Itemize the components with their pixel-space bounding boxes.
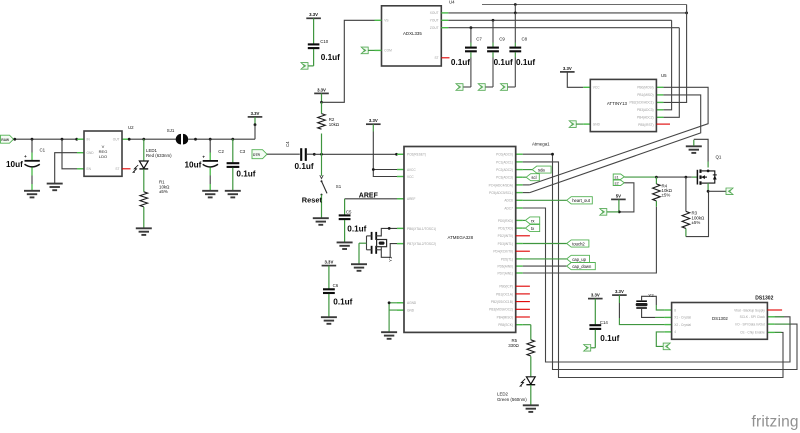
svg-text:3.3V: 3.3V bbox=[324, 260, 333, 265]
wire ADC7 to DS1302 SCLK bbox=[523, 208, 790, 362]
node R2 Reset junction bbox=[320, 153, 323, 156]
wire crystal top to DS1302 pin1 bbox=[642, 296, 657, 305]
svg-text:10uf: 10uf bbox=[185, 160, 202, 169]
svg-text:AGND: AGND bbox=[407, 301, 417, 305]
red stub ATTINY PB5 bbox=[656, 123, 670, 125]
resistor R3 bbox=[682, 177, 708, 237]
svg-text:+: + bbox=[24, 155, 27, 160]
solder jumper SJ1 bbox=[167, 128, 189, 145]
label cap_down bbox=[567, 263, 596, 270]
svg-text:PB3(ADC3): PB3(ADC3) bbox=[637, 108, 654, 112]
wire redundant top loop bbox=[482, 4, 687, 6]
svg-text:XOUT: XOUT bbox=[430, 11, 439, 15]
svg-text:±5%: ±5% bbox=[662, 193, 671, 198]
wire PC1 to DS1302 CE bbox=[523, 162, 783, 378]
connector output heart bbox=[726, 188, 733, 195]
wire PD3 to touch2 bbox=[523, 243, 567, 245]
svg-text:VCC: VCC bbox=[593, 86, 600, 90]
red stub PB1 bbox=[516, 293, 530, 295]
svg-text:PB6(XTAL1/TOSC1): PB6(XTAL1/TOSC1) bbox=[407, 227, 436, 231]
capacitor C5 bbox=[339, 199, 367, 242]
svg-text:3.3V: 3.3V bbox=[369, 118, 378, 123]
svg-text:C6: C6 bbox=[333, 283, 339, 288]
node 3.3V R2 ADXL junction bbox=[320, 101, 323, 104]
node AGND junction bbox=[388, 301, 391, 304]
svg-text:ADXL335: ADXL335 bbox=[403, 31, 422, 36]
node R4 top bbox=[655, 176, 658, 179]
wire s1 to gate node row bbox=[624, 176, 656, 178]
power 3.3V above ATTINY bbox=[560, 66, 575, 72]
LED LED1 Red bbox=[133, 139, 172, 192]
svg-text:VS: VS bbox=[384, 19, 388, 23]
node C3 junction bbox=[231, 138, 234, 141]
svg-text:scl: scl bbox=[531, 175, 536, 180]
svg-text:DTR: DTR bbox=[253, 153, 261, 157]
power 3.3V DS1302 bbox=[612, 289, 627, 303]
LED LED2 Green bbox=[497, 377, 535, 405]
svg-text:AREF: AREF bbox=[359, 192, 379, 199]
svg-text:PB2(SCK/ADC1): PB2(SCK/ADC1) bbox=[630, 101, 654, 105]
capacitor C9 bbox=[485, 20, 513, 87]
svg-text:EN: EN bbox=[87, 167, 92, 171]
node SJ1 wire end bbox=[194, 138, 197, 141]
svg-text:3.3V: 3.3V bbox=[591, 292, 600, 297]
svg-text:PB0(ICP): PB0(ICP) bbox=[499, 285, 512, 289]
svg-text:ADC7: ADC7 bbox=[504, 206, 513, 210]
ground below LED2 bbox=[523, 405, 539, 412]
svg-text:10uf: 10uf bbox=[6, 160, 23, 169]
svg-text:fritzing: fritzing bbox=[752, 413, 799, 430]
capacitor C1 bbox=[6, 139, 46, 190]
svg-text:10kΩ: 10kΩ bbox=[329, 122, 340, 127]
ground below ATmega bbox=[381, 332, 397, 339]
svg-text:ST: ST bbox=[435, 56, 439, 60]
svg-text:Green (560nm): Green (560nm) bbox=[497, 397, 527, 402]
svg-text:0.1uf: 0.1uf bbox=[333, 297, 352, 306]
svg-text:cap_down: cap_down bbox=[572, 264, 592, 269]
svg-text:PC2(ADC2): PC2(ADC2) bbox=[496, 168, 513, 172]
connector gnd DS1302 bbox=[663, 343, 670, 350]
node OUT pin dot bbox=[128, 138, 131, 141]
svg-text:PB1(OC1A): PB1(OC1A) bbox=[496, 292, 513, 296]
label s1 bbox=[613, 174, 624, 180]
svg-text:PB5(/RST): PB5(/RST) bbox=[638, 123, 653, 127]
svg-text:COM: COM bbox=[384, 49, 392, 53]
node PC6 pin dot bbox=[395, 153, 398, 156]
red stub PB0 bbox=[516, 285, 530, 287]
svg-text:GND: GND bbox=[407, 309, 415, 313]
node 5V junction bbox=[618, 211, 621, 214]
wire ATTINY PB0 MOSI to diagonal bbox=[530, 87, 708, 185]
svg-text:C5: C5 bbox=[346, 209, 352, 214]
svg-text:LDO: LDO bbox=[99, 154, 107, 159]
svg-text:0.1uf: 0.1uf bbox=[451, 58, 470, 67]
node XOUT C8 junction bbox=[514, 12, 517, 15]
resistor R4 bbox=[653, 177, 673, 207]
label tx bbox=[525, 225, 539, 232]
svg-text:C1: C1 bbox=[40, 147, 46, 152]
svg-text:ST: ST bbox=[115, 167, 119, 171]
svg-text:SCLK - SPI Clock: SCLK - SPI Clock bbox=[740, 315, 766, 319]
svg-text:0.1uf: 0.1uf bbox=[494, 58, 513, 67]
red stub PD2 bbox=[516, 235, 530, 237]
resistor R2 bbox=[318, 102, 340, 154]
crystal Y2 bbox=[636, 293, 655, 308]
crystal Y1 bbox=[376, 236, 403, 262]
node YOUT C9 junction bbox=[492, 19, 495, 22]
ground below C3 bbox=[225, 191, 241, 198]
svg-text:YOUT: YOUT bbox=[430, 19, 439, 23]
wire 3.3V to AVCC and VCC bbox=[373, 132, 404, 177]
label rx bbox=[525, 217, 539, 224]
node 3.3V wire end bbox=[254, 123, 257, 126]
ground below C6 bbox=[321, 317, 337, 324]
wire junction to ADXL VS bbox=[322, 20, 375, 102]
wire XOUT bus bbox=[448, 12, 686, 14]
svg-text:PB7(XTAL2/TOSC2): PB7(XTAL2/TOSC2) bbox=[407, 242, 436, 246]
capacitor C3 bbox=[227, 139, 256, 190]
svg-text:PB3(MOSI/OC2): PB3(MOSI/OC2) bbox=[489, 308, 513, 312]
wire gnd arrow to 5V node bbox=[607, 211, 619, 213]
svg-text:PB1(MISO): PB1(MISO) bbox=[637, 93, 653, 97]
wire PC2 to sda bbox=[523, 169, 532, 171]
svg-text:3.3V: 3.3V bbox=[309, 12, 318, 17]
connector gnd C14 bbox=[584, 345, 591, 352]
ground below R1 bbox=[136, 228, 152, 235]
node IN pin dot bbox=[75, 138, 78, 141]
node R3 top bbox=[685, 176, 688, 179]
svg-text:ATTINY13: ATTINY13 bbox=[607, 101, 628, 106]
wire C4 to ATmega PC6 bbox=[314, 153, 404, 155]
red stub PB4 bbox=[516, 316, 530, 318]
red stub regulator ST pin bbox=[122, 168, 131, 170]
wire PD6 to cap_down bbox=[523, 265, 567, 267]
svg-text:C14: C14 bbox=[600, 320, 609, 325]
wire regulator GND to ground bbox=[55, 153, 77, 184]
ground below C2 bbox=[202, 191, 218, 198]
wire PD5 to cap_up bbox=[523, 258, 567, 260]
node top loop C8 bbox=[514, 3, 517, 6]
svg-text:CE - Chip Enable: CE - Chip Enable bbox=[740, 331, 765, 335]
wire ground to Q1 drain bbox=[694, 139, 708, 167]
svg-text:8: 8 bbox=[674, 308, 676, 312]
svg-text:PB4(ADC2): PB4(ADC2) bbox=[637, 116, 654, 120]
connector gnd ATTINY bbox=[569, 121, 576, 128]
svg-text:Y1: Y1 bbox=[388, 256, 393, 262]
node ZOUT C7 junction bbox=[470, 26, 473, 29]
switch S1 Reset bbox=[302, 154, 342, 218]
svg-text:5V: 5V bbox=[616, 193, 621, 198]
svg-text:±5%: ±5% bbox=[692, 220, 701, 225]
wire PC4 sda diagonal start bbox=[523, 184, 530, 186]
svg-text:heart_out: heart_out bbox=[572, 198, 591, 203]
ground below C5 bbox=[337, 242, 353, 249]
svg-text:C10: C10 bbox=[320, 39, 329, 44]
label scl bbox=[526, 174, 539, 181]
svg-text:I/O - SPI Data In/Out: I/O - SPI Data In/Out bbox=[735, 322, 765, 326]
svg-text:C7: C7 bbox=[476, 37, 482, 42]
connector gnd stub C10 bbox=[301, 63, 308, 70]
svg-text:PB4(MISO): PB4(MISO) bbox=[497, 315, 513, 319]
svg-text:GND: GND bbox=[593, 122, 601, 126]
power 3.3V above R2 bbox=[314, 87, 329, 102]
svg-text:RAW: RAW bbox=[1, 138, 10, 142]
svg-text:ZOUT: ZOUT bbox=[430, 26, 439, 30]
red stub ADXL ST pin bbox=[441, 57, 449, 59]
svg-text:PC1(ADC1): PC1(ADC1) bbox=[496, 160, 513, 164]
capacitor C8 bbox=[508, 13, 536, 87]
svg-text:s2: s2 bbox=[615, 181, 619, 186]
wire PD0 to rx bbox=[523, 219, 526, 221]
node C1 junction bbox=[31, 138, 34, 141]
wire ADXL COM stub bbox=[368, 49, 374, 51]
ground crystal bbox=[351, 264, 367, 271]
power 3.3V above C10 bbox=[306, 12, 321, 18]
ground near Q1 bbox=[686, 146, 702, 153]
svg-text:Y2: Y2 bbox=[648, 293, 654, 298]
wire AREF bbox=[345, 192, 404, 199]
svg-text:OUT: OUT bbox=[113, 138, 120, 142]
svg-text:S1: S1 bbox=[336, 184, 342, 189]
svg-text:VCC: VCC bbox=[407, 175, 414, 179]
svg-text:C9: C9 bbox=[499, 37, 505, 42]
wire PC0 to DS1302 IO bbox=[523, 154, 797, 369]
svg-text:PD7(AIN1): PD7(AIN1) bbox=[497, 271, 512, 275]
capacitor C7 bbox=[451, 28, 482, 87]
label sda bbox=[532, 166, 551, 173]
svg-text:PD2(INT0): PD2(INT0) bbox=[498, 234, 513, 238]
label heart_out bbox=[567, 197, 593, 204]
svg-text:0.1uf: 0.1uf bbox=[600, 334, 619, 343]
svg-text:+: + bbox=[202, 155, 205, 160]
connector gnd ADXL COM bbox=[361, 47, 368, 54]
wire regulator OUT to SJ1 bbox=[129, 138, 176, 140]
wire RAW rail to regulator IN bbox=[14, 138, 78, 140]
crystal Y1 cluster load caps bbox=[359, 227, 404, 264]
power 3.3V AVCC bbox=[366, 118, 381, 132]
accelerometer U4 ADXL335 bbox=[375, 0, 456, 66]
voltage regulator U2 bbox=[77, 125, 134, 176]
connector RAW bbox=[1, 135, 14, 143]
node EN branch junction bbox=[61, 138, 64, 141]
connector DTR bbox=[252, 150, 267, 159]
wire top loop drop to XOUT bbox=[514, 5, 516, 13]
connector gnd C8 bbox=[501, 84, 508, 91]
svg-text:PD1(TXD): PD1(TXD) bbox=[498, 227, 513, 231]
svg-text:0.1uf: 0.1uf bbox=[236, 170, 255, 179]
svg-text:PD4(XCK/T0): PD4(XCK/T0) bbox=[493, 250, 512, 254]
svg-text:U4: U4 bbox=[449, 0, 455, 4]
svg-text:U5: U5 bbox=[661, 73, 667, 78]
red stub PD4 bbox=[516, 250, 530, 252]
svg-text:C2: C2 bbox=[218, 149, 224, 154]
wire source to output connector bbox=[708, 190, 726, 192]
svg-text:±5%: ±5% bbox=[159, 189, 168, 194]
wire DS1302 GND to connector bbox=[656, 332, 664, 347]
svg-text:0.1uf: 0.1uf bbox=[516, 58, 535, 67]
svg-text:X2 - Crystal: X2 - Crystal bbox=[674, 323, 691, 327]
svg-text:s1: s1 bbox=[615, 175, 619, 180]
svg-text:PD3(INT1): PD3(INT1) bbox=[498, 242, 513, 246]
power 3.3V above C3 rail bbox=[248, 111, 263, 125]
label touch2 bbox=[567, 240, 589, 247]
svg-text:SJ1: SJ1 bbox=[167, 128, 175, 133]
svg-text:Q1: Q1 bbox=[716, 155, 722, 160]
svg-text:Atmega1: Atmega1 bbox=[532, 142, 550, 147]
wire ATTINY PB1 MISO to diagonal bbox=[530, 95, 701, 193]
capacitor C6 bbox=[323, 266, 353, 317]
svg-text:3.3V: 3.3V bbox=[317, 87, 326, 92]
svg-text:U2: U2 bbox=[128, 125, 134, 130]
wire SJ1 to C2 C3 rail bbox=[188, 138, 255, 140]
node Q1 source bbox=[707, 190, 710, 193]
wire 3.3V to DS1302 X2 bbox=[618, 303, 620, 318]
svg-text:GND: GND bbox=[87, 151, 95, 155]
svg-text:330Ω: 330Ω bbox=[508, 343, 519, 348]
svg-text:Reset: Reset bbox=[302, 195, 323, 204]
label cap_up bbox=[567, 255, 590, 262]
RTC U6 DS1302 bbox=[665, 296, 775, 340]
svg-text:AREF: AREF bbox=[407, 197, 416, 201]
wire vertical bus to ATTINY PB3 bbox=[663, 20, 671, 110]
svg-text:0.1uf: 0.1uf bbox=[321, 53, 340, 62]
wire crystal bottom to X1 bbox=[642, 308, 655, 317]
svg-text:Red (633nm): Red (633nm) bbox=[146, 153, 172, 158]
svg-text:C3: C3 bbox=[240, 149, 246, 154]
svg-text:C8: C8 bbox=[522, 37, 528, 42]
capacitor C2 bbox=[185, 139, 225, 190]
wire ADC6 to heart_out bbox=[523, 199, 567, 201]
microcontroller U3 ATMEGA328 bbox=[397, 142, 550, 333]
svg-text:PB2(SS/OC1B): PB2(SS/OC1B) bbox=[491, 300, 513, 304]
svg-text:PC3(ADC3): PC3(ADC3) bbox=[496, 176, 513, 180]
svg-text:PC4(ADC4/SDA): PC4(ADC4/SDA) bbox=[489, 183, 513, 187]
svg-text:PC0(ADC0): PC0(ADC0) bbox=[496, 153, 513, 157]
svg-text:touch2: touch2 bbox=[572, 241, 585, 246]
svg-text:AVCC: AVCC bbox=[407, 168, 416, 172]
svg-text:ATMEGA328: ATMEGA328 bbox=[448, 235, 474, 240]
svg-text:DS1302: DS1302 bbox=[755, 296, 773, 302]
svg-text:PC5(ADC5/SCL): PC5(ADC5/SCL) bbox=[489, 191, 513, 195]
microcontroller U5 ATTINY13 bbox=[583, 73, 667, 131]
wire vertical bus to ATTINY PB2 bbox=[663, 5, 686, 103]
node C4 wire end bbox=[313, 153, 316, 156]
red stub PB2 bbox=[516, 301, 530, 303]
wire s2 to 5V node bbox=[621, 183, 634, 212]
svg-text:PD0(RXD): PD0(RXD) bbox=[498, 219, 513, 223]
resistor R5 bbox=[508, 325, 534, 377]
power 5V bbox=[611, 193, 626, 212]
wire PC5 scl diagonal start bbox=[523, 192, 530, 194]
wire AGND GND to ground bbox=[389, 303, 404, 332]
node LED1 branch bbox=[142, 138, 145, 141]
resistor R1 bbox=[140, 180, 170, 228]
wire PD7 to R4 bottom bbox=[523, 207, 657, 273]
wire YOUT bus bbox=[448, 19, 671, 21]
capacitor C4 bbox=[285, 141, 314, 171]
connector gnd C7 bbox=[456, 84, 463, 91]
connector gnd 5V net bbox=[600, 209, 607, 216]
wire PC3 to scl bbox=[523, 176, 526, 178]
wire 3.3V down to rail bbox=[254, 125, 256, 140]
node AVCC junction bbox=[372, 168, 375, 171]
power 3.3V above C6 bbox=[322, 260, 337, 266]
node raw rail dot bbox=[13, 138, 16, 141]
svg-text:X1 - Crystal: X1 - Crystal bbox=[674, 316, 691, 320]
node PC0 corner bbox=[551, 153, 554, 156]
svg-text:3.3V: 3.3V bbox=[615, 289, 624, 294]
svg-text:DS1302: DS1302 bbox=[712, 316, 728, 321]
svg-text:ADC6: ADC6 bbox=[504, 199, 513, 203]
svg-text:PD5(T1): PD5(T1) bbox=[501, 257, 513, 261]
node C2 junction bbox=[209, 138, 212, 141]
svg-text:PD6(AIN0): PD6(AIN0) bbox=[497, 265, 512, 269]
svg-text:PC6(RESET): PC6(RESET) bbox=[407, 153, 426, 157]
wire PD1 to tx bbox=[523, 227, 526, 229]
wire ZOUT bus bbox=[448, 27, 679, 29]
svg-text:4: 4 bbox=[674, 330, 676, 334]
svg-text:0.1uf: 0.1uf bbox=[295, 162, 314, 171]
red stub PB3 bbox=[516, 308, 530, 310]
svg-text:0.1uf: 0.1uf bbox=[347, 225, 366, 234]
transistor Q1 MOSFET bbox=[697, 155, 722, 192]
svg-text:C4: C4 bbox=[285, 141, 290, 147]
ground below C1 bbox=[24, 191, 40, 198]
capacitor C14 bbox=[589, 299, 619, 348]
svg-text:Vbat - Backup Supply: Vbat - Backup Supply bbox=[734, 308, 765, 312]
wire 3.3V to ATTINY VCC bbox=[567, 72, 583, 87]
wire DTR to C4 bbox=[267, 153, 300, 155]
ground regulator bbox=[47, 184, 63, 191]
wire vertical bus to ATTINY PB4 bbox=[663, 28, 679, 118]
node XOUT join vertical bbox=[685, 12, 688, 15]
red stub DS1302 Vbat bbox=[767, 309, 782, 311]
power 3.3V above C14 bbox=[588, 292, 603, 298]
capacitor C10 bbox=[308, 18, 340, 66]
wire gnd to ATTINY GND bbox=[576, 123, 583, 125]
ground below Reset bbox=[313, 218, 329, 225]
connector gnd C9 bbox=[478, 84, 485, 91]
svg-text:PB0(MOSI): PB0(MOSI) bbox=[637, 86, 653, 90]
svg-text:3.3V: 3.3V bbox=[251, 111, 260, 116]
svg-text:cap_up: cap_up bbox=[572, 257, 586, 262]
label s2 bbox=[613, 180, 624, 186]
svg-text:PB5(SCK): PB5(SCK) bbox=[498, 323, 513, 327]
svg-text:sda: sda bbox=[538, 168, 545, 173]
wire EN tie to input rail bbox=[62, 139, 77, 169]
svg-text:3.3V: 3.3V bbox=[563, 66, 572, 71]
